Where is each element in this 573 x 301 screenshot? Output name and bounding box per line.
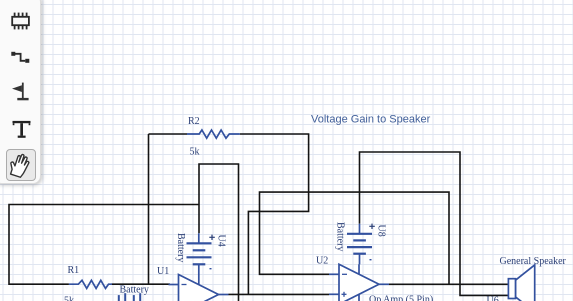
icon step connector [11, 52, 29, 63]
battery U8 [347, 224, 372, 265]
svg-text:U8: U8 [375, 225, 386, 237]
svg-text:Battery: Battery [175, 233, 186, 262]
svg-text:U1: U1 [157, 266, 169, 277]
icon IC chip [12, 13, 29, 30]
svg-text:Battery: Battery [335, 222, 346, 251]
svg-text:Op Amp (5 Pin): Op Amp (5 Pin) [369, 295, 433, 301]
hand tool button (selected) [6, 149, 36, 181]
wire: U1 output to U2 plus input [229, 293, 330, 295]
svg-text:U4: U4 [215, 235, 226, 247]
svg-text:5k: 5k [64, 296, 74, 301]
resistor R2 [187, 130, 240, 138]
wire: R2 left vertical down to R1 wire [148, 134, 150, 284]
op-amp U2 [329, 264, 389, 301]
toolbar panel [0, 0, 41, 184]
svg-text:R2: R2 [188, 116, 200, 127]
wire: R1 right to U1 minus input [112, 283, 171, 285]
wire: R2 left horizontal [149, 133, 188, 135]
svg-text:U2: U2 [316, 255, 328, 266]
resistor R1 [69, 280, 112, 288]
icon text T [13, 121, 31, 138]
battery (input source, bottom edge, partially cut) [119, 293, 140, 301]
svg-text:Voltage Gain to Speaker: Voltage Gain to Speaker [311, 114, 431, 126]
label + (U4) [209, 235, 215, 240]
svg-text:Battery: Battery [120, 284, 149, 295]
wire: U2 output to speaker top [389, 283, 508, 285]
wire: battery U4 top node box [199, 164, 239, 301]
battery U4 [187, 233, 212, 274]
op-amp U1 [169, 275, 229, 301]
wire: battery U8 top to speaker bottom [360, 152, 509, 295]
wire: U2 minus loop to output [260, 192, 450, 284]
svg-text:General Speaker: General Speaker [500, 256, 567, 267]
wire: left box top from battery node to left side [9, 205, 199, 285]
hand icon [1, 146, 39, 186]
wire: R2 right feedback down to U1 output [240, 134, 309, 294]
svg-text:U6: U6 [487, 296, 499, 301]
svg-text:R1: R1 [68, 265, 80, 276]
icon flag marker [12, 83, 29, 101]
svg-text:5k: 5k [190, 147, 200, 158]
label + (U8) [369, 224, 375, 229]
speaker U6 [508, 265, 534, 301]
